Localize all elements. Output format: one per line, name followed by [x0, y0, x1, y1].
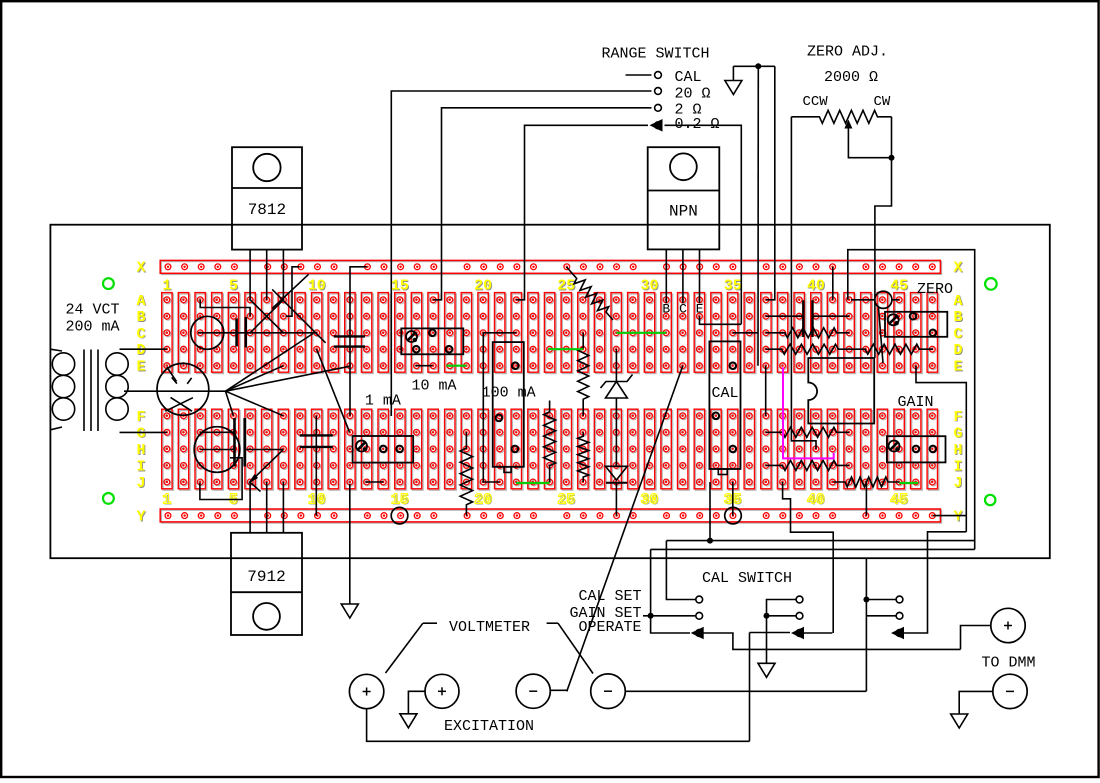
svg-text:CW: CW [874, 94, 891, 110]
breadboard bus Y [161, 510, 941, 523]
wire NPN leads B C E [665, 249, 667, 303]
diode bridge D1-D4 [272, 274, 308, 308]
wire excitation plus bottom [367, 709, 750, 742]
trimpot VR4 GAIN [887, 436, 946, 462]
shunt box 100 mA [493, 342, 524, 467]
svg-text:I: I [953, 458, 962, 475]
wire row E jumper [415, 365, 432, 367]
svg-text:Y: Y [953, 509, 962, 526]
svg-text:15: 15 [391, 492, 409, 509]
svg-text:30: 30 [640, 278, 658, 295]
svg-text:45: 45 [890, 492, 908, 509]
svg-text:10: 10 [308, 278, 326, 295]
breadboard column strips rows A-E and F-J [163, 294, 174, 374]
trimpot VR2 1 mA [353, 436, 414, 463]
enclosure panel outline [50, 225, 1049, 559]
svg-text:C: C [679, 302, 687, 317]
svg-text:30: 30 [640, 492, 658, 509]
wire row C c20-c21 [483, 332, 516, 334]
svg-text:25: 25 [557, 492, 575, 509]
svg-text:2000 Ω: 2000 Ω [824, 69, 878, 86]
wire excitation + ground elbow [408, 691, 425, 714]
svg-text:10 mA: 10 mA [411, 378, 456, 395]
wire c38J staircase to CAL switch [783, 482, 834, 633]
wire 7812 leads [249, 250, 251, 300]
wire pot wiper [844, 120, 852, 129]
wire range 0.2ohm right [665, 125, 742, 324]
svg-text:7912: 7912 [247, 568, 285, 586]
wire top-right hook [848, 250, 975, 550]
resistor R6 (row C right) [766, 328, 850, 338]
wire excitation minus to switch [625, 690, 866, 692]
wire c42A to circled hole [851, 299, 875, 301]
svg-text:45: 45 [890, 278, 908, 295]
wire transformer center tap [124, 390, 226, 392]
wire voltmeter pointer right [547, 622, 558, 624]
wire to board row A [766, 66, 775, 299]
svg-text:D: D [953, 342, 962, 359]
wire ground bus top [733, 65, 774, 67]
wire row C bus [198, 332, 317, 334]
svg-text:7812: 7812 [248, 201, 286, 219]
svg-text:40: 40 [807, 278, 825, 295]
capacitor C3 (cols 11-12) [350, 267, 367, 416]
resistor R4 (col24) [544, 401, 556, 483]
svg-text:E: E [136, 359, 145, 376]
wire circled hole down [879, 308, 884, 363]
wire voltmeter minus link [550, 689, 568, 691]
regulator U2 7912 [231, 533, 302, 635]
resistor R7 (row D) [766, 344, 850, 354]
wire pole1 common out [703, 633, 961, 649]
svg-text:25: 25 [557, 278, 575, 295]
svg-text:B: B [136, 309, 145, 326]
wire diagonal row E col32 to voltmeter minus [567, 366, 683, 692]
wire ground from c12 row J [349, 484, 351, 604]
wire Y bus right stub [933, 515, 966, 517]
svg-text:15: 15 [391, 278, 409, 295]
capacitor C1 (electrolytic can, top bank) [191, 316, 224, 349]
svg-text:CAL SWITCH: CAL SWITCH [702, 570, 792, 587]
wire magenta jumper [783, 367, 834, 458]
svg-text:ZERO ADJ.: ZERO ADJ. [807, 44, 888, 61]
wire pole2 out [803, 632, 833, 634]
svg-text:X: X [136, 260, 145, 277]
wire bus tap elbow [286, 267, 300, 316]
wire DMM + [961, 626, 991, 650]
svg-text:5: 5 [229, 278, 238, 295]
wire bus h549 [651, 548, 975, 550]
resistor R8 (row D right) [849, 344, 933, 354]
wire range 2ohm [433, 108, 651, 300]
binding post excitation - [591, 674, 626, 709]
svg-text:B: B [662, 302, 670, 317]
resistor R10 (row I right) [766, 460, 850, 470]
ground symbol [725, 81, 742, 95]
capacitor C2 plates [233, 418, 236, 467]
svg-text:F: F [953, 409, 962, 426]
wire c35J to Y bus [732, 482, 734, 516]
wire DMM - to ground [959, 691, 993, 714]
binding post voltmeter - [516, 674, 550, 708]
ground symbol [758, 663, 775, 677]
resistor R9 (row G right) [766, 427, 850, 437]
svg-text:35: 35 [724, 278, 742, 295]
svg-text:J: J [953, 475, 962, 492]
svg-text:I: I [136, 458, 145, 475]
binding post DMM + [991, 608, 1025, 642]
trimpot VR1 10 mA [401, 328, 463, 354]
svg-text:VOLTMETER: VOLTMETER [449, 619, 530, 636]
svg-text:40: 40 [807, 492, 825, 509]
svg-text:F: F [136, 409, 145, 426]
svg-text:CAL: CAL [711, 385, 738, 402]
wire base lead [167, 367, 177, 382]
wire emitter jumper [700, 316, 742, 324]
wire 7912 leads [249, 482, 251, 533]
wire c20C down to row J jumper [483, 333, 499, 482]
svg-text:EXCITATION: EXCITATION [444, 718, 534, 735]
breadboard bus X [161, 262, 941, 275]
wire range 0.2ohm left [516, 125, 648, 299]
wire row E col46 to switch [916, 366, 966, 532]
svg-text:A: A [136, 293, 145, 310]
capacitor C4 (cols 9-11, bottom bank) [315, 416, 317, 516]
wire c43J to Y bus [865, 482, 867, 516]
svg-text:C: C [136, 326, 145, 343]
wire to board col36 [757, 66, 759, 365]
svg-text:200 mA: 200 mA [65, 319, 119, 336]
capacitor C5 plates (row B right) [766, 315, 803, 317]
svg-text:20: 20 [474, 492, 492, 509]
svg-text:RANGE SWITCH: RANGE SWITCH [602, 46, 710, 63]
resistor R3 (col26 G-J) [578, 432, 589, 482]
resistor R11 (row J right) [833, 477, 899, 487]
ground symbol [400, 714, 417, 728]
svg-text:1: 1 [162, 492, 171, 509]
wire c3J staircase [200, 458, 242, 500]
svg-text:CAL: CAL [675, 69, 702, 86]
wire voltmeter pointer left [423, 622, 437, 624]
wire range 20ohm [391, 91, 651, 416]
wire pot CCW lead [791, 117, 816, 449]
svg-text:20: 20 [474, 278, 492, 295]
svg-text:G: G [953, 425, 962, 442]
wire bus X to c41 row A [832, 267, 834, 300]
ground symbol [951, 714, 968, 728]
trimpot VR3 ZERO [885, 312, 947, 337]
svg-text:CAL SET: CAL SET [578, 588, 641, 605]
switch S2 pole 2 [767, 600, 797, 664]
binding post voltmeter + [349, 674, 383, 708]
svg-text:NPN: NPN [669, 203, 698, 221]
svg-text:24 VCT: 24 VCT [65, 302, 119, 319]
corner mounting holes (green) [103, 278, 114, 289]
shunt box CAL [709, 341, 740, 469]
svg-text:D: D [136, 342, 145, 359]
switch S2 pole 3 [865, 558, 867, 691]
switch S2 pole 1 [666, 541, 696, 600]
diode D6 [606, 466, 628, 480]
svg-text:1: 1 [162, 278, 171, 295]
pin markers [730, 362, 737, 369]
transistor Q1 NPN package [648, 147, 720, 249]
wire green jumpers [446, 365, 466, 367]
resistor R2 (col26 C-F) [578, 333, 589, 416]
svg-text:TO DMM: TO DMM [982, 655, 1036, 672]
wire diag c10D-c12G [317, 349, 350, 432]
svg-text:A: A [953, 293, 962, 310]
regulator U1 7812 [232, 147, 302, 249]
svg-text:ZERO: ZERO [917, 281, 953, 298]
diode D5 zener [615, 349, 617, 381]
svg-text:G: G [136, 425, 145, 442]
svg-text:E: E [696, 302, 704, 317]
wire row G jumper c3-c5 [200, 431, 233, 433]
wire row H [200, 449, 234, 451]
wire jumper c3A-c6B [200, 300, 250, 316]
transistor Q3 emitter arrow [251, 450, 284, 482]
resistor R1 (diagonal from bus X) [566, 267, 613, 320]
ground symbol [341, 604, 358, 618]
binding post DMM - [993, 674, 1027, 708]
svg-text:1 mA: 1 mA [365, 393, 401, 410]
wire c34J to node [709, 482, 711, 541]
svg-text:GAIN: GAIN [898, 394, 934, 411]
binding post excitation + [425, 674, 459, 708]
svg-text:H: H [953, 442, 962, 459]
node fan junction [226, 334, 314, 392]
capacitor C1 plates [235, 319, 238, 347]
svg-text:B: B [953, 309, 962, 326]
svg-text:100 mA: 100 mA [482, 385, 536, 402]
svg-text:E: E [953, 359, 962, 376]
wire jumper c37 row E to row F [765, 366, 767, 416]
wire range switch pole [626, 74, 652, 76]
wire bus h541 [666, 540, 974, 542]
wire pot CW lead [875, 117, 892, 358]
svg-text:C: C [953, 326, 962, 343]
svg-text:J: J [136, 475, 145, 492]
svg-text:20 Ω: 20 Ω [675, 85, 711, 102]
resistor R5 (col19 G-Y) [460, 432, 472, 515]
svg-text:Y: Y [136, 509, 145, 526]
op-amp U3 (DIP-8, cols 40-43) [808, 358, 874, 424]
wire row J jumper c13-c14 [365, 481, 383, 483]
transistor Q2 (TO-3 can) [157, 363, 209, 415]
svg-text:X: X [953, 260, 962, 277]
circled holes (node markers) [391, 507, 408, 524]
svg-text:OPERATE: OPERATE [578, 619, 641, 636]
svg-text:H: H [136, 442, 145, 459]
capacitor C2 (electrolytic can, bottom bank) [194, 427, 240, 473]
wire pole3 out [903, 532, 967, 633]
svg-text:CCW: CCW [803, 94, 829, 110]
